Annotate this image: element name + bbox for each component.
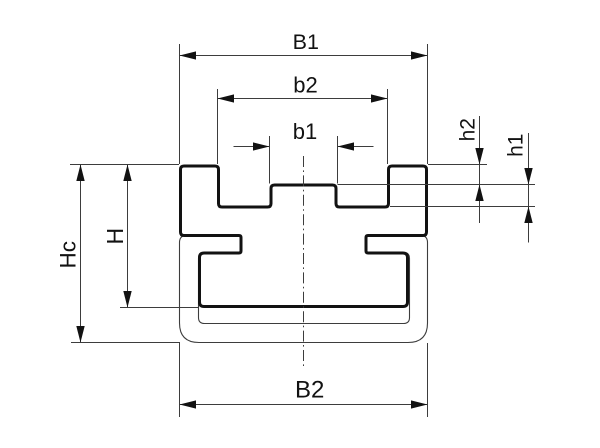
svg-text:h2: h2 (456, 118, 479, 141)
dimension B2 (180, 343, 428, 417)
dimension b2 (218, 89, 388, 164)
steel C-profile outer contour (180, 236, 428, 343)
dimension B1 (180, 44, 428, 164)
svg-text:B2: B2 (295, 377, 324, 404)
dimension H (120, 165, 198, 308)
extension lines for h2 / h1 (338, 165, 536, 207)
svg-text:b2: b2 (293, 72, 317, 97)
dimension b1 (234, 136, 374, 184)
center line (dash-dot) (303, 156, 305, 368)
steel C-profile inner cavity (199, 236, 410, 324)
dimension h1 (528, 133, 530, 243)
svg-text:B1: B1 (293, 30, 319, 54)
dimension h2 (479, 116, 481, 223)
svg-text:b1: b1 (293, 119, 317, 144)
dimension Hc (70, 165, 180, 343)
chain guide profile (thick outline) (181, 166, 427, 307)
svg-text:Hc: Hc (56, 241, 81, 268)
svg-text:H: H (102, 228, 128, 245)
svg-text:h1: h1 (504, 134, 527, 157)
